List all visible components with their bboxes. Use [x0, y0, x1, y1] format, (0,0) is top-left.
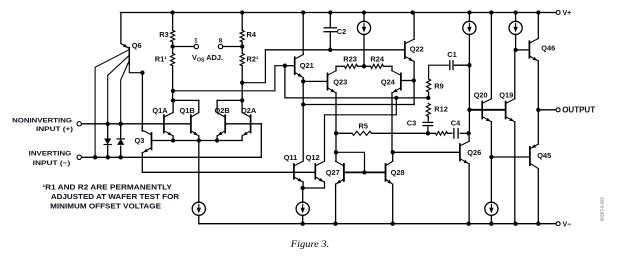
svg-text:C2: C2: [337, 27, 346, 36]
svg-text:Q26: Q26: [467, 148, 481, 157]
svg-text:Q46: Q46: [541, 44, 555, 53]
svg-text:Q22: Q22: [410, 45, 424, 54]
svg-text:Figure 3.: Figure 3.: [290, 239, 329, 250]
svg-text:R2¹: R2¹: [247, 55, 259, 64]
svg-text:Q19: Q19: [499, 90, 513, 99]
svg-text:Q1A: Q1A: [152, 106, 168, 115]
svg-text:ADJUSTED AT WAFER TEST FOR: ADJUSTED AT WAFER TEST FOR: [51, 192, 180, 201]
svg-text:R5: R5: [359, 121, 368, 130]
svg-text:NONINVERTING: NONINVERTING: [12, 117, 72, 124]
svg-text:R24: R24: [370, 54, 384, 63]
svg-text:V+: V+: [563, 10, 572, 17]
svg-text:INVERTING: INVERTING: [29, 150, 72, 157]
svg-text:R12: R12: [434, 104, 448, 113]
svg-text:00297-0-003: 00297-0-003: [600, 197, 605, 221]
svg-text:8: 8: [219, 37, 223, 44]
svg-text:Q3: Q3: [135, 136, 145, 145]
svg-text:Q24: Q24: [381, 77, 396, 86]
svg-text:R9: R9: [434, 82, 443, 91]
svg-text:R1¹: R1¹: [155, 55, 167, 64]
svg-text:Q23: Q23: [333, 77, 347, 86]
svg-text:R23: R23: [343, 54, 357, 63]
svg-text:V−: V−: [563, 221, 572, 228]
svg-text:Q2B: Q2B: [215, 106, 230, 115]
svg-text:Q45: Q45: [537, 151, 551, 160]
svg-text:C4: C4: [451, 118, 461, 127]
svg-text:Q28: Q28: [391, 168, 405, 177]
svg-text:Q1B: Q1B: [180, 106, 195, 115]
svg-text:C1: C1: [447, 50, 456, 59]
svg-text:Q21: Q21: [300, 61, 314, 70]
svg-text:¹R1 AND R2 ARE PERMANENTLY: ¹R1 AND R2 ARE PERMANENTLY: [42, 182, 172, 191]
svg-text:Q11: Q11: [284, 153, 298, 162]
svg-text:1: 1: [194, 37, 198, 44]
svg-text:MINIMUM OFFSET VOLTAGE: MINIMUM OFFSET VOLTAGE: [50, 202, 161, 211]
svg-text:INPUT (+): INPUT (+): [36, 126, 73, 133]
svg-text:Q27: Q27: [326, 168, 340, 177]
svg-text:C3: C3: [407, 119, 416, 128]
svg-text:INPUT (−): INPUT (−): [33, 160, 71, 167]
svg-text:OUTPUT: OUTPUT: [562, 105, 595, 114]
svg-text:R3: R3: [159, 30, 168, 39]
svg-text:Q20: Q20: [474, 90, 488, 99]
svg-text:Q12: Q12: [306, 153, 320, 162]
svg-text:Q6: Q6: [132, 41, 142, 50]
svg-text:R4: R4: [247, 30, 257, 39]
svg-text:Q2A: Q2A: [241, 106, 257, 115]
